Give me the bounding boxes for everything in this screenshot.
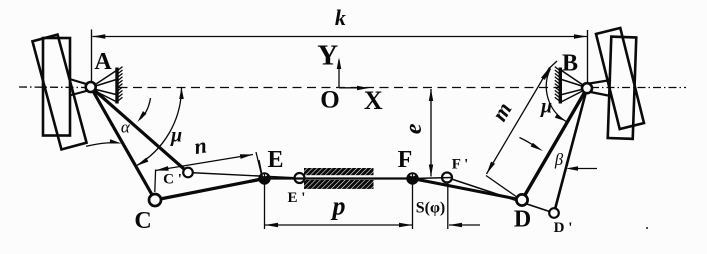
joint F [408,174,418,184]
joint E' [295,173,305,183]
joint D [516,194,527,205]
steering arm A-C' [91,87,188,173]
arrowhead beta right [566,166,578,170]
support fan lines at B [560,70,585,103]
coordinate axis Y [338,60,340,88]
scan speck [646,227,648,229]
arrowhead S left [449,223,462,228]
arrowhead e bottom [429,165,433,177]
dimension n line [156,155,254,171]
svg-text:μ: μ [170,125,182,147]
dimension n extension from E [256,152,263,179]
angle beta leader right [578,168,597,170]
svg-text:A: A [94,49,112,75]
tie rod F'-D' [447,178,554,214]
support fan lines at A [93,70,118,103]
wheel right centerline [591,87,686,89]
wall support at B [559,68,562,104]
wheel right vertical rim [608,37,637,139]
joint F' [442,173,452,183]
dimension n extension from C [154,170,157,193]
svg-text:e: e [401,123,427,134]
extension overdraw through F [412,174,414,185]
wheel left centerline [19,86,87,89]
svg-text:μ: μ [540,96,552,118]
rack housing upper hatched bar [304,168,374,175]
svg-text:O: O [320,86,339,113]
joint C' [183,168,193,178]
svg-text:k: k [335,5,346,30]
arrowhead Y axis [337,58,342,70]
svg-text:D ': D ' [554,220,573,236]
angle arc mu at B [546,69,566,122]
svg-text:E ': E ' [288,190,306,206]
svg-text:S(φ): S(φ) [416,200,446,217]
angle alpha leader upper [140,98,151,120]
dimension p extension below E [264,177,266,230]
dimension m extension tick top [550,61,558,68]
stub axle right [583,80,611,85]
svg-text:B: B [562,51,578,77]
dimension k extension line at B [587,30,589,83]
rack rod F-F' neutral [413,178,453,179]
angle arc mu at A [136,88,182,167]
dimension k line [93,36,588,38]
extension overdraw through E [264,174,266,185]
arrowhead p right [399,223,412,228]
tie rod F-D [413,179,523,201]
joint E [260,174,270,184]
kingpin pivot B [582,83,592,93]
svg-text:p: p [331,192,346,221]
svg-text:C ': C ' [163,172,182,188]
arrowhead alpha left [110,139,122,143]
wall hatching at B [555,67,561,102]
arrowhead k left [92,34,105,39]
dimension k extension line at A [91,30,93,82]
arrowhead alpha upper [138,111,147,122]
tie rod C'-E' [188,173,300,179]
coordinate axis X [339,87,366,89]
wall support at A [115,68,118,104]
svg-text:F: F [398,147,413,173]
joint D' [549,208,559,218]
arrowhead m top [541,68,550,80]
arrowhead m bottom [487,162,496,174]
rack rod E-F [260,177,413,179]
dimension p line [265,224,412,226]
arrowhead e top [429,89,433,101]
joint C [149,194,161,206]
tie rod F-D overdraw at F [413,179,427,182]
arrowhead k right [574,34,587,39]
wall hatching at A [117,67,123,102]
angle beta leader left [520,138,534,146]
stub axle left [70,79,89,85]
svg-text:F ': F ' [452,157,469,173]
arrowhead beta left [531,143,543,151]
svg-text:α: α [121,118,131,137]
steering arm A-C [91,87,155,200]
dimension extension below F' [447,179,449,229]
wheel left vertical rim [43,38,70,136]
arrowhead mu B bottom [555,114,566,122]
n extension overdraw through E [259,160,263,180]
arrowhead X axis [357,86,369,91]
dimension m line [487,68,550,175]
svg-text:C: C [134,208,151,234]
svg-text:E: E [267,147,283,173]
arrowhead mu B top [544,67,552,79]
dimension S tail line [449,224,480,226]
angle alpha leader left [86,143,113,147]
steering arm D'-B [554,88,587,213]
dimension p extension below F [412,177,414,229]
arrowhead mu A bottom [136,158,148,166]
kingpin pivot A [86,82,96,92]
arrowhead mu A top [179,88,184,100]
dimension m extension from D [486,176,519,199]
tie rod C-E overdraw at E [250,179,265,182]
steering arm D-B [522,88,587,200]
svg-text:X: X [364,86,383,115]
wheel left tilted rim [32,35,86,150]
svg-text:D: D [514,207,531,233]
rack housing lower hatched bar [304,180,374,189]
arrowhead n left [156,166,169,171]
svg-text:Y: Y [317,40,338,72]
tie rod C-E [155,179,265,201]
arrowhead p left [265,223,278,228]
svg-text:β: β [554,150,564,169]
arrowhead n right [240,154,253,159]
wheel right tilted rim [596,28,644,129]
dimension e line [430,89,432,177]
axle dashed line A-B [119,87,560,89]
